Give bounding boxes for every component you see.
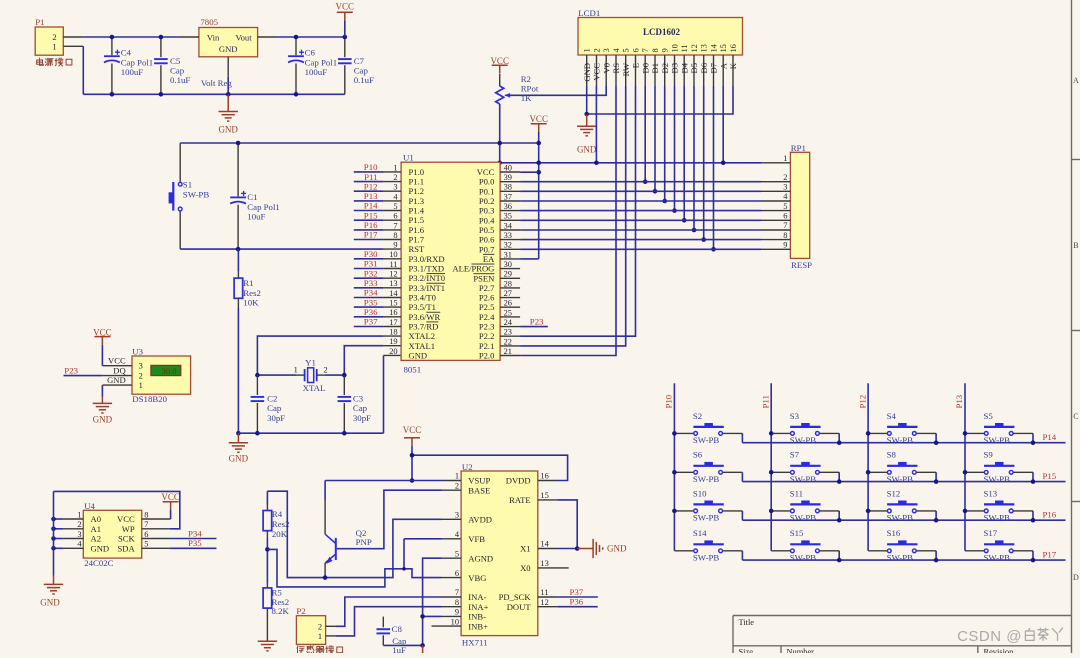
svg-text:10: 10 <box>389 250 397 259</box>
svg-text:S7: S7 <box>790 450 800 460</box>
svg-text:P12: P12 <box>364 181 378 191</box>
svg-text:RP1: RP1 <box>791 143 806 153</box>
capacitor C1 Cap Pol1 <box>230 143 280 249</box>
svg-text:P0.6: P0.6 <box>479 235 495 245</box>
svg-text:1: 1 <box>318 632 322 641</box>
svg-text:SCK: SCK <box>118 534 136 544</box>
wire net P12 <box>354 190 384 192</box>
svg-text:26: 26 <box>504 299 512 308</box>
svg-text:VCC: VCC <box>161 492 180 502</box>
svg-text:40: 40 <box>504 163 512 172</box>
connector P1 <box>35 17 83 55</box>
svg-text:24C02C: 24C02C <box>84 558 113 568</box>
power VCC (U4 pin8) <box>163 502 179 510</box>
wire VFB/VBG net from divider <box>267 549 441 587</box>
svg-text:20: 20 <box>389 347 397 356</box>
svg-text:2: 2 <box>318 623 322 632</box>
wire LCD D4 to P0.4 <box>683 86 685 220</box>
svg-text:2: 2 <box>77 520 81 529</box>
svg-text:P3.1/TXD: P3.1/TXD <box>409 264 445 274</box>
svg-text:1: 1 <box>294 366 298 375</box>
svg-text:P3.0/RXD: P3.0/RXD <box>409 254 445 264</box>
svg-text:P35: P35 <box>364 297 378 307</box>
sheet border right edge <box>1072 0 1080 653</box>
svg-text:P3.2/INT0: P3.2/INT0 <box>409 273 446 283</box>
svg-text:S8: S8 <box>887 450 897 460</box>
svg-text:RW: RW <box>621 62 631 76</box>
svg-text:P0.7: P0.7 <box>479 244 495 254</box>
junction dot C4 top <box>110 35 115 40</box>
resistor R4 Res2 20K <box>263 491 289 549</box>
svg-text:S3: S3 <box>790 411 800 421</box>
junction dot U4 bus <box>51 527 56 532</box>
svg-text:14: 14 <box>540 540 549 549</box>
svg-text:P1.0: P1.0 <box>409 167 425 177</box>
svg-text:DQ: DQ <box>113 366 126 376</box>
wire S17 to row <box>1032 551 1034 560</box>
svg-text:A: A <box>1073 76 1079 85</box>
junction dot S7 row <box>837 479 842 484</box>
svg-text:P12: P12 <box>857 395 867 409</box>
svg-text:2: 2 <box>593 48 602 52</box>
wire P2.1 to LCD RW <box>520 86 626 346</box>
svg-text:1: 1 <box>583 48 592 52</box>
junction dot C1 top <box>236 141 241 146</box>
capacitor C7 <box>338 37 374 94</box>
wire S6 to row <box>741 472 743 481</box>
junction dot AGND/INB- <box>420 614 425 619</box>
svg-text:P31: P31 <box>364 259 378 269</box>
svg-text:S1: S1 <box>183 179 192 189</box>
wire net P17 <box>354 239 384 241</box>
svg-text:9: 9 <box>783 241 787 250</box>
svg-text:Cap Pol1: Cap Pol1 <box>247 202 280 212</box>
svg-text:15: 15 <box>719 44 728 52</box>
wire LCD D6 to P0.6 <box>703 86 705 240</box>
svg-text:P1: P1 <box>35 17 44 27</box>
svg-text:SW-PB: SW-PB <box>790 552 817 562</box>
svg-text:GND: GND <box>582 63 592 82</box>
svg-text:A2: A2 <box>91 534 102 544</box>
svg-text:P34: P34 <box>364 288 378 298</box>
svg-text:7805: 7805 <box>200 17 218 27</box>
wire VCC rail to RP1 (y=162.8) <box>500 162 761 164</box>
svg-text:Cap: Cap <box>170 65 185 75</box>
svg-text:39: 39 <box>504 173 512 182</box>
wire keypad column P10 <box>673 383 675 551</box>
svg-text:38: 38 <box>504 183 512 192</box>
wire U4 top loop to WP <box>54 491 180 528</box>
wire LCD K (pin16) to GND <box>587 86 733 114</box>
junction dot R1 bottom / xtal gnd rail <box>236 431 241 436</box>
svg-text:16: 16 <box>540 472 548 481</box>
junction dot D5 <box>692 228 697 233</box>
svg-text:P3.4/T0: P3.4/T0 <box>409 293 436 303</box>
switch S7 SW-PB <box>771 450 839 484</box>
junction dot C6 bottom <box>294 92 299 97</box>
svg-text:0.1uF: 0.1uF <box>170 75 190 85</box>
svg-text:VCC: VCC <box>117 514 135 524</box>
svg-text:Cap: Cap <box>353 403 368 413</box>
svg-text:6: 6 <box>393 212 397 221</box>
wire P2.2 to LCD E <box>520 86 635 336</box>
ground symbol GND (X1, rotated) <box>577 539 603 558</box>
junction dot S5 column <box>963 431 968 436</box>
svg-text:8: 8 <box>783 231 787 240</box>
svg-text:32: 32 <box>504 241 512 250</box>
wire keypad column P12 <box>867 383 869 551</box>
svg-text:P0.4: P0.4 <box>479 215 495 225</box>
wire keypad column P11 <box>770 383 772 551</box>
wire Q2 base to BASE pin2 <box>337 490 442 549</box>
svg-text:C7: C7 <box>354 56 365 66</box>
svg-text:7: 7 <box>455 588 459 597</box>
svg-text:S10: S10 <box>693 488 707 498</box>
wire keypad row P17 <box>742 559 1065 561</box>
switch S10 SW-PB <box>674 488 742 522</box>
svg-text:A1: A1 <box>91 524 102 534</box>
title block <box>733 616 1072 654</box>
junction dot VSUP <box>410 478 415 483</box>
wire VFB pin4 riser <box>403 539 405 569</box>
svg-text:1uF: 1uF <box>392 645 406 653</box>
svg-text:9: 9 <box>661 48 670 52</box>
wire net P15 <box>354 219 384 221</box>
svg-text:D: D <box>1073 573 1079 582</box>
svg-text:10: 10 <box>451 617 459 626</box>
svg-text:P17: P17 <box>364 230 378 240</box>
junction dot C3 bottom <box>342 431 347 436</box>
svg-text:3: 3 <box>602 48 611 52</box>
svg-text:D3: D3 <box>670 63 680 74</box>
svg-text:24: 24 <box>504 318 513 327</box>
svg-text:U1: U1 <box>403 152 414 162</box>
svg-text:8.2K: 8.2K <box>272 606 290 616</box>
wire P2 pin2 to INA- <box>335 597 441 626</box>
svg-text:P10: P10 <box>664 394 674 408</box>
wire XTAL1 (pin19) to crystal right <box>344 346 383 375</box>
svg-text:DVDD: DVDD <box>506 476 531 486</box>
svg-text:27: 27 <box>504 289 512 298</box>
svg-text:S5: S5 <box>984 411 994 421</box>
svg-text:K: K <box>728 62 738 69</box>
wire P2 pin1 to INA+ <box>335 607 441 636</box>
svg-text:GND: GND <box>107 375 126 385</box>
svg-text:P10: P10 <box>364 162 378 172</box>
wire keypad row P16 <box>742 519 1065 521</box>
svg-text:13: 13 <box>389 279 397 288</box>
wire RATE riser to X1/GND <box>557 500 577 549</box>
svg-text:GND: GND <box>219 44 238 54</box>
svg-text:1K: 1K <box>521 93 532 103</box>
wire U3 VCC <box>101 345 103 366</box>
junction dot 7805 gnd <box>226 92 231 97</box>
svg-text:VBG: VBG <box>468 573 486 583</box>
svg-text:C8: C8 <box>392 624 403 634</box>
svg-text:C2: C2 <box>267 393 277 403</box>
svg-text:U2: U2 <box>462 462 473 472</box>
svg-text:P2.0: P2.0 <box>479 351 495 361</box>
svg-text:30pF: 30pF <box>353 413 371 423</box>
svg-text:28: 28 <box>504 279 512 288</box>
junction dot D1 <box>653 189 658 194</box>
svg-text:A: A <box>718 62 728 69</box>
svg-text:2: 2 <box>393 173 397 182</box>
wire U3 GND <box>101 385 103 397</box>
label dianyuan jiekou (power connector) <box>37 58 72 66</box>
svg-text:P1.7: P1.7 <box>409 235 425 245</box>
wire keypad row P14 <box>742 442 1065 444</box>
svg-text:S2: S2 <box>693 411 702 421</box>
capacitor C3 30pF <box>338 375 372 433</box>
net label P23 wire (DQ) <box>64 375 103 377</box>
svg-text:GND: GND <box>229 453 249 463</box>
junction dot X1/RATE <box>575 546 580 551</box>
net label P35 wire (SDA) <box>170 547 217 549</box>
svg-text:R4: R4 <box>272 509 283 519</box>
junction dot VCC rail <box>410 453 415 458</box>
wire S12 to row <box>935 511 937 520</box>
svg-text:SW-PB: SW-PB <box>790 474 817 484</box>
svg-text:VSUP: VSUP <box>468 476 490 486</box>
junction dot C5 top <box>159 35 164 40</box>
svg-text:HX711: HX711 <box>462 637 488 647</box>
wire keypad column P13 <box>964 383 966 551</box>
wire R2 wiper to LCD V0 <box>511 86 606 95</box>
potentiometer R2 RPot <box>496 74 539 104</box>
junction dot U4 bus <box>51 546 56 551</box>
wire VCC#2 riser down to EA <box>538 132 540 259</box>
svg-text:SW-PB: SW-PB <box>887 474 914 484</box>
svg-text:INB-: INB- <box>468 612 486 622</box>
junction dot S3 row <box>837 440 842 445</box>
svg-text:Vin: Vin <box>207 33 220 43</box>
junction dot C2 bottom <box>255 431 260 436</box>
svg-text:12: 12 <box>389 270 397 279</box>
svg-text:PNP: PNP <box>356 537 372 547</box>
junction dot C1/R1/RST rail <box>236 247 241 252</box>
junction dot S16 row <box>934 558 939 563</box>
wire LCD VCC (pin2) to rail <box>595 86 597 163</box>
svg-text:Title: Title <box>739 618 755 627</box>
svg-text:GND: GND <box>91 543 110 553</box>
svg-text:GND: GND <box>409 350 428 360</box>
svg-text:C5: C5 <box>170 56 181 66</box>
svg-text:0.1uF: 0.1uF <box>354 75 374 85</box>
svg-text:GND: GND <box>607 544 627 554</box>
switch S12 SW-PB <box>868 488 936 522</box>
svg-text:SW-PB: SW-PB <box>693 512 720 522</box>
svg-text:P34: P34 <box>188 528 202 538</box>
wire net P11 <box>354 181 384 183</box>
svg-text:14: 14 <box>710 43 719 52</box>
svg-text:LCD1: LCD1 <box>578 8 600 18</box>
capacitor C4 <box>104 37 153 94</box>
svg-text:22: 22 <box>504 337 512 346</box>
crystal Y1 XTAL <box>257 357 344 393</box>
svg-text:12: 12 <box>540 598 548 607</box>
wire LCD D1 to P0.1 <box>654 86 656 191</box>
svg-text:XTAL: XTAL <box>303 383 326 393</box>
junction dot Q2 emitter/AVDD <box>323 575 328 580</box>
wire xtal ground rail <box>238 432 383 434</box>
wire VSUP row (Q2 collector to pin1) <box>325 480 441 482</box>
ground symbol GND (U4) <box>53 576 55 584</box>
switch S13 SW-PB <box>965 488 1033 522</box>
switch S16 SW-PB <box>868 528 936 562</box>
svg-text:10uF: 10uF <box>247 212 265 222</box>
wire RST rail <box>180 248 383 250</box>
svg-text:P2.1: P2.1 <box>479 341 495 351</box>
svg-text:XTAL2: XTAL2 <box>409 331 436 341</box>
svg-text:Cap Pol1: Cap Pol1 <box>305 57 338 67</box>
svg-text:3: 3 <box>139 362 143 371</box>
junction dot R2/reset rail <box>497 141 502 146</box>
net label P37 wire (PD_SCK) <box>557 596 597 598</box>
svg-text:5: 5 <box>622 48 631 52</box>
wire S15 to row <box>838 551 840 560</box>
svg-text:2: 2 <box>324 366 328 375</box>
ground symbol GND (R5) <box>258 641 277 651</box>
svg-text:PSEN: PSEN <box>473 273 495 283</box>
svg-text:1: 1 <box>52 43 56 52</box>
junction dot S12 row <box>934 518 939 523</box>
svg-text:36: 36 <box>504 202 512 211</box>
svg-text:C4: C4 <box>121 48 132 58</box>
junction dot crystal right <box>342 373 347 378</box>
capacitor C6 <box>288 37 337 94</box>
junction dot S17 row <box>1031 558 1036 563</box>
wire LCD A (pin15) to rail <box>722 86 724 163</box>
svg-text:Revision: Revision <box>984 648 1015 653</box>
switch S15 SW-PB <box>771 528 839 562</box>
svg-text:DOUT: DOUT <box>507 602 532 612</box>
svg-text:P1.3: P1.3 <box>409 196 425 206</box>
switch S17 SW-PB <box>965 528 1033 562</box>
wire S5 to row <box>1032 433 1034 442</box>
svg-text:BASE: BASE <box>468 485 490 495</box>
svg-text:15: 15 <box>389 299 397 308</box>
wire S14 to row <box>741 551 743 560</box>
svg-text:8: 8 <box>393 231 397 240</box>
svg-text:D1: D1 <box>650 63 660 74</box>
svg-text:6: 6 <box>632 48 641 52</box>
transistor Q2 PNP <box>325 481 372 578</box>
svg-text:37: 37 <box>504 192 512 201</box>
wire S7 to row <box>838 472 840 481</box>
svg-text:P14: P14 <box>364 201 378 211</box>
svg-text:VFB: VFB <box>468 534 485 544</box>
svg-text:P15: P15 <box>1043 471 1057 481</box>
svg-text:18: 18 <box>389 328 397 337</box>
wire XTAL2 (pin18) to crystal left <box>257 336 383 375</box>
wire net P33 <box>354 287 384 289</box>
wire net P31 <box>354 268 384 270</box>
svg-text:Cap Pol1: Cap Pol1 <box>121 57 154 67</box>
svg-text:P2.7: P2.7 <box>479 283 495 293</box>
svg-text:SW-PB: SW-PB <box>790 512 817 522</box>
svg-text:5: 5 <box>455 549 459 558</box>
svg-text:P23: P23 <box>64 365 78 375</box>
svg-text:P3.6/WR: P3.6/WR <box>409 312 441 322</box>
svg-text:P0.5: P0.5 <box>479 225 495 235</box>
wire P0.6 bus <box>520 239 761 241</box>
svg-text:V0: V0 <box>601 63 611 74</box>
svg-text:XTAL1: XTAL1 <box>409 341 436 351</box>
svg-text:P2.3: P2.3 <box>479 322 495 332</box>
capacitor C8 1uF <box>377 617 407 655</box>
wire P2.0 to LCD RS <box>520 86 616 356</box>
wire S13 to row <box>1032 511 1034 520</box>
svg-text:RESP: RESP <box>791 260 812 270</box>
svg-text:P36: P36 <box>570 597 584 607</box>
svg-text:P36: P36 <box>364 307 378 317</box>
wire P1 pin2 to 7805 Vin <box>83 36 179 38</box>
wire VCC reset rail (y=143) <box>180 142 539 144</box>
junction dot U4 bus <box>51 536 56 541</box>
svg-text:P3.5/T1: P3.5/T1 <box>409 302 436 312</box>
junction dot S10 column <box>672 509 677 514</box>
junction dot S11 row <box>837 518 842 523</box>
svg-text:100uF: 100uF <box>121 67 144 77</box>
wire P0.5 bus <box>520 229 761 231</box>
svg-text:RATE: RATE <box>509 495 530 505</box>
switch S6 SW-PB <box>674 450 742 484</box>
switch S3 SW-PB <box>771 411 839 445</box>
wire net P16 <box>354 229 384 231</box>
junction dot S9 row <box>1031 479 1036 484</box>
wire P0.2 bus <box>520 200 761 202</box>
junction dot D0 <box>643 179 648 184</box>
svg-text:23: 23 <box>504 328 512 337</box>
wire net P10 <box>354 171 384 173</box>
wire S2 to row <box>741 433 743 442</box>
svg-text:SW-PB: SW-PB <box>984 435 1011 445</box>
wire EA to VCC riser <box>520 258 539 260</box>
wire net P32 <box>354 277 384 279</box>
wire net P34 <box>354 297 384 299</box>
svg-text:S15: S15 <box>790 528 804 538</box>
wire ground rail (bottom) <box>83 93 345 95</box>
svg-text:100uF: 100uF <box>305 67 328 77</box>
ground symbol GND (U3) <box>93 397 112 413</box>
junction dot S6 column <box>672 470 677 475</box>
power VCC (main input) <box>336 2 355 21</box>
svg-text:P2.4: P2.4 <box>479 312 495 322</box>
svg-text:31: 31 <box>504 250 512 259</box>
svg-text:D2: D2 <box>660 63 670 74</box>
wire S11 to row <box>838 511 840 520</box>
svg-text:U4: U4 <box>84 501 95 511</box>
svg-text:7: 7 <box>641 48 650 52</box>
svg-text:8051: 8051 <box>404 365 422 375</box>
svg-text:P32: P32 <box>364 268 378 278</box>
switch S8 SW-PB <box>868 450 936 484</box>
svg-text:GND: GND <box>93 414 113 424</box>
svg-text:PD_SCK: PD_SCK <box>499 592 532 602</box>
svg-text:P37: P37 <box>364 317 378 327</box>
crystal wire left node to plate <box>257 374 296 376</box>
connector P2 (sensor) <box>296 606 335 644</box>
svg-text:P2.2: P2.2 <box>479 331 495 341</box>
ground symbol GND (reset/xtal) <box>229 433 248 452</box>
switch S14 SW-PB <box>674 528 742 562</box>
wire U1 GND (pin20) riser <box>383 355 385 433</box>
net label P36 wire (DOUT) <box>557 606 597 608</box>
svg-text:P13: P13 <box>364 191 378 201</box>
svg-text:11: 11 <box>540 588 548 597</box>
svg-text:D6: D6 <box>699 62 709 73</box>
